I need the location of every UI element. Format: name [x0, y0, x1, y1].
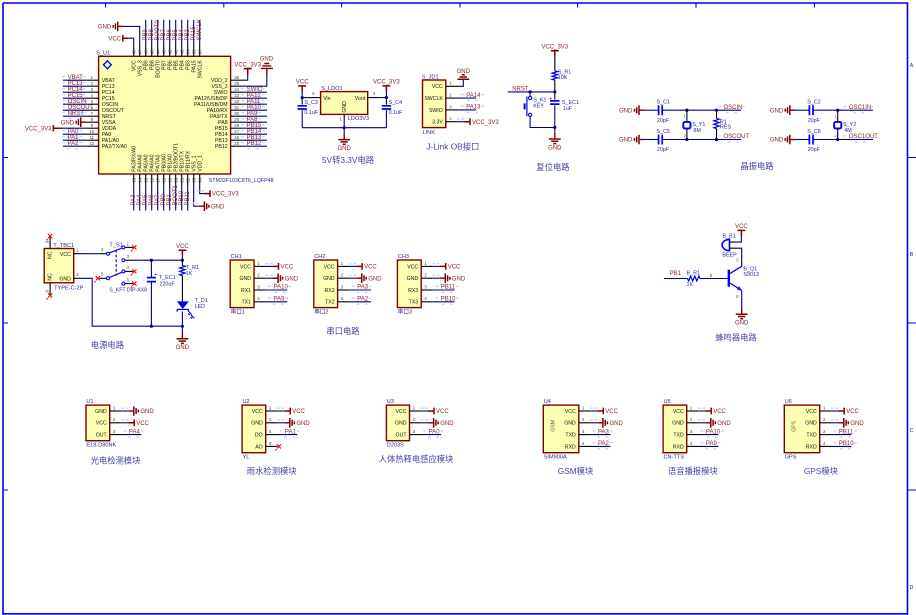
svg-text:GSM模块: GSM模块: [558, 466, 594, 476]
CH1 pin 3 RX1: [254, 289, 266, 291]
svg-text:PA1: PA1: [285, 429, 297, 435]
wire net PA0: [421, 434, 441, 436]
regulator LDO1 LDO3V3: [309, 97, 321, 99]
connector CH3 serial header: [397, 260, 421, 308]
svg-text:TX1: TX1: [241, 300, 251, 306]
wire net PA2: [349, 301, 371, 303]
svg-text:35: 35: [234, 81, 239, 86]
svg-text:+: +: [549, 96, 552, 102]
module U3 D203S: [386, 405, 409, 441]
TBC1 shell pin bottom no-connect: [49, 283, 51, 295]
ground LDO circuit: [343, 128, 345, 134]
svg-text:VCC: VCC: [292, 409, 305, 415]
power GND at U5 pin 2: [698, 422, 705, 424]
svg-text:VCC: VCC: [296, 80, 309, 86]
svg-text:D203S: D203S: [387, 443, 404, 449]
wire collector: [741, 259, 743, 267]
wire net PB10: [181, 186, 183, 211]
svg-text:20pF: 20pF: [808, 118, 821, 124]
U1 pin 41 PB5: [175, 45, 177, 56]
wire net PA3: [590, 434, 610, 436]
svg-text:KEY: KEY: [533, 104, 544, 110]
U3 pin 2 GND: [410, 422, 422, 424]
svg-text:S_C6: S_C6: [807, 129, 821, 135]
svg-text:21: 21: [179, 177, 184, 182]
module U2 YL: [242, 405, 266, 453]
svg-text:GND: GND: [457, 69, 471, 75]
ground J-Link: [462, 79, 464, 81]
wire net OSCOUT: [63, 109, 86, 111]
svg-text:GND: GND: [610, 421, 624, 427]
svg-text:S_U1: S_U1: [96, 51, 110, 57]
svg-text:U6: U6: [785, 399, 792, 405]
U1 pin 46 PB9: [145, 45, 147, 56]
svg-text:GND: GND: [285, 276, 299, 282]
transistor Q1 S9013 NPN: [728, 270, 730, 287]
svg-text:34: 34: [234, 87, 239, 92]
svg-text:GND: GND: [548, 145, 562, 151]
wire net VBAT: [63, 79, 86, 81]
svg-text:Vin: Vin: [323, 96, 331, 102]
U3 pin 1 VCC: [410, 410, 422, 412]
svg-text:YL: YL: [243, 455, 250, 461]
power GND at U4 pin 2: [590, 422, 597, 424]
power VCC: [178, 250, 186, 255]
power VCC at U2 pin 1: [277, 410, 284, 412]
power VCC buzzer: [737, 230, 745, 236]
svg-text:电源电路: 电源电路: [91, 340, 125, 350]
svg-text:4M: 4M: [844, 128, 852, 134]
svg-text:SIM900A: SIM900A: [544, 455, 567, 461]
CH2 pin 2 GND: [338, 277, 350, 279]
svg-text:T_S1: T_S1: [109, 242, 122, 248]
svg-text:PA10: PA10: [706, 429, 721, 435]
capacitor EC1 220uF: [150, 260, 152, 277]
wire GND down to rail: [81, 278, 151, 326]
U1 pin 35 VSS_2: [231, 85, 243, 87]
svg-text:PB12: PB12: [215, 144, 228, 150]
svg-text:PB1: PB1: [670, 271, 682, 277]
svg-text:人体热释电感应模块: 人体热释电感应模块: [379, 454, 454, 464]
wire net PB1: [169, 186, 171, 211]
U1 pin 44 BOOT0: [157, 45, 159, 56]
svg-text:OSCIN: OSCIN: [724, 105, 743, 111]
svg-text:18: 18: [161, 177, 166, 182]
U1 pin 37 SWCLK: [199, 45, 201, 56]
wire net PA4: [121, 434, 141, 436]
wire net PB11: [831, 434, 851, 436]
wire net PA1: [277, 434, 297, 436]
power GND at U1 pin 8 VSSA: [81, 121, 87, 123]
svg-text:RXD: RXD: [806, 444, 817, 450]
svg-text:VCC: VCC: [436, 409, 449, 415]
resistor R1 RES: [716, 110, 718, 118]
svg-text:NRST: NRST: [68, 111, 85, 117]
wire net PB9: [145, 20, 147, 45]
wire net NRST: [63, 115, 86, 117]
crystal S_Y1 8M: [686, 110, 688, 121]
svg-text:24: 24: [197, 177, 202, 182]
wire JD1 pin1 to ground: [458, 81, 464, 86]
svg-text:E18-D80NK: E18-D80NK: [86, 443, 116, 449]
wire net PA12: [242, 97, 267, 99]
power VCC at U6 pin 1: [831, 410, 838, 412]
wire LDO input net: [302, 97, 308, 99]
svg-text:RES: RES: [720, 125, 731, 131]
svg-text:GPS: GPS: [792, 420, 798, 431]
svg-text:晶振电路: 晶振电路: [740, 161, 774, 171]
svg-text:GND: GND: [850, 421, 864, 427]
svg-text:OSC1OUT: OSC1OUT: [849, 134, 878, 140]
svg-text:CN-TTS: CN-TTS: [664, 455, 685, 461]
U1 pin 45 PB8: [151, 45, 153, 56]
U1 pin 42 PB6: [169, 45, 171, 56]
U1 pin 43 PB7: [163, 45, 165, 56]
wire bottom rail: [151, 325, 182, 327]
wire net PA9: [242, 115, 267, 117]
resistor B_R1 1K: [688, 276, 701, 281]
svg-text:PA10: PA10: [274, 285, 289, 291]
wire net PB3: [187, 20, 189, 45]
svg-text:RXD: RXD: [673, 444, 684, 450]
pushbutton K1 KEY: [529, 92, 531, 96]
svg-text:16: 16: [149, 177, 154, 182]
wire net PA10: [242, 109, 267, 111]
svg-text:20pF: 20pF: [657, 147, 670, 153]
wire net PA3: [349, 289, 371, 291]
svg-text:17: 17: [155, 177, 160, 182]
U1 pin 1 GND: [110, 410, 122, 412]
U1 pin 20 PB2/BOOT1: [175, 174, 177, 186]
svg-text:GND: GND: [338, 146, 352, 152]
svg-text:1: 1: [684, 115, 686, 119]
power GND feeding U1 pin 47: [123, 26, 139, 45]
svg-text:VCC: VCC: [713, 409, 726, 415]
U1 pin 21 PB10/TX: [181, 174, 183, 186]
U1 pin 3 OUT: [110, 434, 122, 436]
svg-text:VCC: VCC: [324, 264, 335, 270]
svg-text:GND: GND: [672, 421, 684, 427]
svg-text:VCC: VCC: [407, 264, 418, 270]
svg-text:32: 32: [234, 99, 239, 104]
U2 pin 2 GND: [266, 422, 278, 424]
svg-text:GND: GND: [140, 409, 154, 415]
ground reset circuit: [554, 128, 556, 133]
svg-text:43: 43: [161, 49, 166, 54]
svg-text:S_C3: S_C3: [304, 100, 318, 106]
svg-text:VCC: VCC: [252, 409, 263, 415]
power VCC feeding LDO input: [298, 86, 306, 92]
U1 pin 6 OSCOUT: [86, 109, 98, 111]
svg-text:36: 36: [234, 75, 239, 80]
U1 pin 27 PB14: [231, 133, 243, 135]
svg-text:B_B1: B_B1: [722, 233, 735, 239]
svg-text:13: 13: [131, 177, 136, 182]
svg-text:42: 42: [167, 49, 172, 54]
svg-text:RXD: RXD: [565, 444, 576, 450]
wire net PB12: [242, 145, 267, 147]
svg-text:PA9: PA9: [274, 297, 286, 303]
svg-text:RX3: RX3: [408, 288, 418, 294]
wire net OSC1IN: [815, 109, 873, 111]
svg-text:+: +: [154, 272, 157, 278]
wire net PC15: [63, 97, 86, 99]
U1 pin 32 PA11/USB/DM: [231, 103, 243, 105]
U1 pin 24 VDD_1: [199, 174, 201, 186]
svg-text:TXD: TXD: [673, 433, 684, 439]
wire net PB10: [433, 301, 455, 303]
svg-text:S_JD1: S_JD1: [422, 75, 439, 81]
svg-text:VCC: VCC: [240, 264, 251, 270]
wire LDO ground rail: [302, 127, 386, 129]
wire net PA2: [590, 445, 610, 447]
svg-text:19: 19: [167, 177, 172, 182]
svg-text:5V转3.3V电路: 5V转3.3V电路: [322, 155, 375, 165]
svg-text:1: 1: [835, 115, 837, 119]
wire net PB11: [187, 186, 189, 211]
svg-text:VCC_3V3: VCC_3V3: [234, 62, 261, 68]
svg-text:SWCLK: SWCLK: [197, 19, 203, 40]
U1 pin 36 VDD_2: [231, 79, 243, 81]
svg-text:OUT: OUT: [96, 433, 108, 439]
U1 pin 5 OSCIN: [86, 103, 98, 105]
power GND at U1 pin 23 VSS_1: [194, 186, 199, 207]
svg-text:37: 37: [197, 49, 202, 54]
resistor R1 10K: [554, 57, 556, 71]
module U4 SIM900A: [543, 405, 579, 453]
wire net PA10: [698, 434, 718, 436]
svg-text:1uF: 1uF: [563, 106, 573, 112]
svg-text:语音播报模块: 语音播报模块: [668, 466, 718, 476]
module U1 E18-D80NK: [86, 405, 110, 441]
buzzer B1 BEEP: [722, 239, 729, 250]
CH2 pin 4 TX2: [338, 301, 350, 303]
svg-text:GND: GND: [368, 276, 382, 282]
svg-text:45: 45: [149, 49, 154, 54]
CH1 pin 2 GND: [254, 277, 266, 279]
svg-text:CH1: CH1: [231, 254, 242, 260]
capacitor C4 0.1uF: [385, 98, 387, 105]
module U6 GPS: [784, 405, 819, 453]
U1 pin 13 PA3/RX/A0: [133, 174, 135, 186]
power GND at U2 pin 2: [277, 422, 284, 424]
svg-text:OSCOUT: OSCOUT: [724, 134, 750, 140]
wire net PB0: [163, 186, 165, 211]
svg-text:PA2: PA2: [357, 297, 369, 303]
svg-text:GND: GND: [440, 421, 454, 427]
svg-text:U4: U4: [544, 399, 551, 405]
U1 pin 2 VCC: [110, 422, 122, 424]
power VCC_3V3 at LDO output: [385, 92, 387, 98]
svg-text:B_R1: B_R1: [687, 270, 701, 276]
wire buzzer to VCC: [738, 237, 742, 242]
svg-text:C: C: [910, 428, 914, 434]
crystal S_Y2 4M: [837, 110, 839, 121]
power VCC at U4 pin 1: [590, 410, 597, 412]
U1 pin 29 PA8: [231, 121, 243, 123]
wire net SWCLK: [199, 20, 201, 45]
svg-text:BEEP: BEEP: [722, 253, 737, 259]
svg-text:蜂鸣器电路: 蜂鸣器电路: [715, 332, 757, 342]
wire net NRST: [508, 91, 555, 93]
JD1 pin 2 SWCLK: [446, 97, 458, 99]
svg-text:T_TBC1: T_TBC1: [53, 243, 74, 249]
svg-text:2: 2: [835, 134, 837, 138]
svg-text:VCC_3V3: VCC_3V3: [541, 44, 568, 50]
capacitor S_C6 20pF: [795, 139, 807, 141]
power VCC at U1 pin 2: [121, 422, 128, 424]
U4 pin 3 TXD: [579, 434, 591, 436]
U1 pin 12 PA2/TX/A0: [86, 145, 98, 147]
svg-text:光电检测模块: 光电检测模块: [91, 456, 141, 466]
CH1 pin 4 TX1: [254, 301, 266, 303]
svg-text:VCC_3V3: VCC_3V3: [212, 192, 239, 198]
svg-text:GND: GND: [95, 409, 107, 415]
capacitor EC1 1uF: [554, 92, 556, 100]
svg-text:S_C4: S_C4: [389, 100, 403, 106]
svg-text:GND: GND: [176, 345, 190, 351]
svg-text:VCC: VCC: [136, 421, 149, 427]
svg-text:38: 38: [191, 49, 196, 54]
CH2 pin 3 RX2: [338, 289, 350, 291]
power VCC at U3 pin 1: [421, 410, 428, 412]
svg-text:GND: GND: [260, 57, 274, 63]
capacitor S_C5 20pF: [645, 139, 657, 141]
svg-text:39: 39: [185, 49, 190, 54]
svg-text:串口1: 串口1: [231, 308, 245, 316]
svg-text:20: 20: [173, 177, 178, 182]
U2 pin 4 AO: [266, 445, 278, 447]
U2 pin 3 DO: [266, 434, 278, 436]
ground power circuit: [181, 326, 183, 332]
svg-text:GND: GND: [770, 138, 784, 144]
U1 pin 15 PA5/A0: [145, 174, 147, 186]
svg-text:NC: NC: [48, 273, 54, 281]
power GND at CH3 pin2: [433, 277, 440, 279]
svg-text:GND: GND: [251, 421, 263, 427]
U1 pin 16 PA6/A0: [151, 174, 153, 186]
switch gang dashed link: [115, 250, 117, 276]
TBC1 pin 1 VCC: [74, 253, 81, 255]
svg-text:TX2: TX2: [325, 300, 335, 306]
svg-text:VCC: VCC: [448, 265, 461, 271]
U1 pin 48 VCC: [133, 45, 135, 56]
svg-text:STM32F103C8T6_LQFP48: STM32F103C8T6_LQFP48: [209, 178, 274, 184]
wire net PA13: [458, 109, 477, 111]
svg-text:GND: GND: [61, 120, 75, 126]
TBC1 pin 2 GND: [74, 277, 81, 279]
power GND at U1 pin 35 VSS_2: [242, 74, 266, 87]
U1 pin 8 VSSA: [86, 121, 98, 123]
wire net PA10: [266, 289, 288, 291]
wire net PB7: [163, 20, 165, 45]
svg-text:GND: GND: [735, 321, 749, 327]
wire net PB10: [831, 445, 851, 447]
svg-text:TYPE-C-2P: TYPE-C-2P: [54, 286, 83, 292]
svg-text:U5: U5: [664, 399, 671, 405]
U1 pin 7 NRST: [86, 115, 98, 117]
resistor R1 1K: [181, 260, 183, 265]
svg-text:VCC: VCC: [108, 36, 121, 42]
power VCC at CH1 pin1: [266, 265, 273, 267]
power VCC_3V3 at JD1 pin4: [458, 121, 465, 123]
svg-text:GND: GND: [564, 421, 576, 427]
wire VCC to switch: [81, 253, 99, 255]
U1 pin 10 PA0: [86, 133, 98, 135]
svg-text:PA2/TX/A0: PA2/TX/A0: [102, 144, 127, 150]
svg-text:VCC_3V3: VCC_3V3: [373, 80, 400, 86]
svg-text:PA2: PA2: [68, 141, 80, 147]
svg-text:NRST: NRST: [512, 87, 529, 93]
power GND at U6 pin 2: [831, 422, 838, 424]
svg-text:E: E: [736, 294, 739, 299]
svg-text:33: 33: [234, 93, 239, 98]
svg-text:10K: 10K: [558, 75, 568, 81]
svg-text:串口2: 串口2: [314, 308, 328, 316]
svg-text:VCC: VCC: [432, 84, 443, 90]
svg-text:S_KFT DIP-XX8: S_KFT DIP-XX8: [109, 287, 147, 293]
svg-text:30: 30: [234, 111, 239, 116]
U1 pin 9 VDDA: [86, 127, 98, 129]
U5 pin 2 GND: [687, 422, 699, 424]
svg-text:OUT: OUT: [396, 433, 408, 439]
svg-text:GND: GND: [98, 25, 112, 31]
U1 pin 40 PB4: [181, 45, 183, 56]
JD1 pin 3 SWIO: [446, 109, 458, 111]
wire switched VCC rail: [133, 259, 182, 261]
wire net BOOT1: [175, 186, 177, 211]
svg-text:46: 46: [143, 49, 148, 54]
U1 pin 3 PC14: [86, 91, 98, 93]
LED D1: [178, 302, 188, 308]
CH2 pin 1 VCC: [338, 265, 350, 267]
wire net PA4: [139, 186, 141, 211]
svg-text:PB11: PB11: [839, 429, 854, 435]
svg-text:25: 25: [234, 141, 239, 146]
power VCC_3V3 at U1 pin 24 VDD_1: [200, 186, 204, 194]
U1 pin 14 PA4/A0: [139, 174, 141, 186]
svg-text:PB11: PB11: [185, 191, 191, 206]
svg-text:T_EC1: T_EC1: [159, 275, 176, 281]
svg-text:20pF: 20pF: [657, 118, 670, 124]
U1 pin 2 PC13: [86, 85, 98, 87]
svg-text:8M: 8M: [694, 128, 702, 134]
connector CH2 serial header: [314, 260, 338, 308]
power GND to S_C6: [790, 139, 796, 141]
svg-text:27: 27: [234, 129, 239, 134]
svg-text:VCC_3V3: VCC_3V3: [472, 120, 499, 126]
wire net PC14: [63, 91, 86, 93]
wire net PB4: [181, 20, 183, 45]
svg-text:15: 15: [143, 177, 148, 182]
power GND at CH2 pin2: [349, 277, 356, 279]
svg-text:31: 31: [234, 105, 239, 110]
svg-text:GND: GND: [395, 421, 407, 427]
wire net PA9: [266, 301, 288, 303]
svg-text:10: 10: [89, 129, 94, 134]
U1 pin 11 PA1/A0: [86, 139, 98, 141]
wire net PA8: [242, 121, 267, 123]
U1 pin 39 PB3: [187, 45, 189, 56]
svg-text:B: B: [710, 273, 713, 278]
wire base: [700, 278, 728, 280]
wire net PB6: [169, 20, 171, 45]
svg-text:雨水检测模块: 雨水检测模块: [247, 466, 297, 476]
wire net PC13: [63, 85, 86, 87]
wire LED to rail: [181, 312, 183, 327]
svg-text:GND: GND: [239, 276, 251, 282]
U5 pin 3 TXD: [687, 434, 699, 436]
